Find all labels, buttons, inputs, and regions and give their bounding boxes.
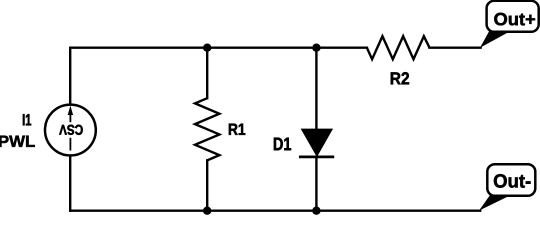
junction top D1 (312, 44, 320, 52)
label R1 (229, 124, 245, 135)
diode D1 (299, 129, 334, 157)
label I1 PWL (0, 114, 35, 147)
wire top to R2 (316, 47, 367, 49)
resistor R1 (195, 98, 219, 160)
wire D1 bottom lead (315, 157, 317, 211)
wire R2 to Out+ (430, 47, 481, 49)
resistor R2 (367, 36, 430, 59)
label R2 (391, 72, 409, 84)
wire D1 top lead (315, 48, 317, 130)
label D1 (274, 138, 291, 151)
wire bottom horizontal (70, 209, 480, 211)
wire R1 top lead (206, 48, 208, 98)
wire top middle (207, 47, 316, 49)
node flag Out- (479, 164, 535, 210)
wire left bottom vertical (69, 156, 71, 211)
wire top-left horizontal (70, 48, 207, 104)
current source I1 (45, 105, 96, 156)
junction bottom D1 (312, 207, 320, 215)
node flag Out+ (480, 1, 539, 48)
wire R1 bottom lead (206, 160, 208, 210)
junction top R1 (203, 44, 211, 52)
junction bottom R1 (203, 207, 211, 215)
